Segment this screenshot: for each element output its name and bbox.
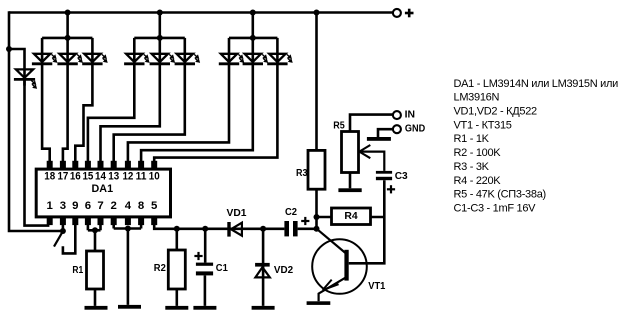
svg-text:R2 - 100K: R2 - 100K xyxy=(454,147,502,159)
node: collector junction xyxy=(314,226,320,232)
svg-text:GND: GND xyxy=(405,124,426,135)
wire: R5 bottom to ground xyxy=(349,173,352,189)
transistor VT1 collector lead xyxy=(317,229,347,254)
pin stub bottom 5 xyxy=(151,218,157,225)
LED HL7 anode wire xyxy=(184,38,187,64)
LED HL1 cathode bar xyxy=(14,78,35,81)
LED HL4 anode wire xyxy=(91,38,94,64)
wire: HL4 to pin 16 xyxy=(75,64,92,162)
wire: single LED cathode to pin 1 xyxy=(25,79,50,225)
svg-text:18: 18 xyxy=(44,171,55,183)
transistor VT1 emitter lead xyxy=(319,278,345,301)
pin stub top 17 xyxy=(60,161,66,168)
svg-text:C1-C3 - 1mF 16V: C1-C3 - 1mF 16V xyxy=(454,202,537,214)
LED HL5 emission arrows xyxy=(144,54,149,62)
LED HL7 cathode bar xyxy=(175,62,195,65)
diode VD1 xyxy=(227,222,230,237)
LED HL2 anode wire xyxy=(41,38,44,64)
svg-text:DA1 - LM3914N или LM3915N или: DA1 - LM3914N или LM3915N или xyxy=(454,78,619,90)
resistor R2 xyxy=(176,229,179,250)
svg-text:6: 6 xyxy=(85,200,91,212)
wire: pin 3 stub down xyxy=(62,225,65,231)
node: VD2 tap xyxy=(260,226,266,232)
svg-text:R5 - 47K (СП3-38а): R5 - 47K (СП3-38а) xyxy=(454,189,546,201)
LED HL9 cathode bar xyxy=(243,62,263,65)
svg-text:VD2: VD2 xyxy=(274,265,293,276)
node: group 3 rail junction xyxy=(250,35,256,41)
node: R4 left junction xyxy=(314,214,320,220)
label + (C3) xyxy=(387,185,395,193)
wire: R5 top to IN xyxy=(350,115,393,132)
potentiometer R5 xyxy=(342,132,359,173)
node: junction top rail / group3 xyxy=(250,10,256,16)
pin stub bottom 8 xyxy=(138,218,144,225)
node: pins 2-4-8 junction xyxy=(125,226,131,232)
svg-text:7: 7 xyxy=(97,200,103,212)
terminal GND xyxy=(393,125,401,133)
LED HL7 emission arrows xyxy=(194,54,199,62)
LED HL9 anode wire xyxy=(252,38,255,64)
svg-text:17: 17 xyxy=(57,171,68,183)
svg-text:10: 10 xyxy=(149,171,160,183)
capacitor C2 xyxy=(284,221,289,236)
svg-text:13: 13 xyxy=(108,171,119,183)
LED HL2 emission arrows xyxy=(52,54,57,62)
capacitor C3 xyxy=(376,171,392,174)
wire: R5 wiper to C3 xyxy=(360,152,385,171)
svg-text:4: 4 xyxy=(125,200,132,212)
wire: pins 2,4,8 to ground xyxy=(114,225,141,305)
svg-text:VD1: VD1 xyxy=(227,208,247,219)
LED HL7 triangle xyxy=(177,54,193,62)
ground (GND terminal) xyxy=(367,137,391,141)
LED HL6 anode wire xyxy=(159,38,162,64)
LED HL2 triangle xyxy=(34,54,50,62)
pin stub bottom 9 xyxy=(72,218,78,225)
svg-text:IN: IN xyxy=(405,109,415,120)
svg-text:R3 - 3K: R3 - 3K xyxy=(454,161,490,173)
label + (C2) xyxy=(301,217,309,225)
svg-text:VD1,VD2 - КД522: VD1,VD2 - КД522 xyxy=(454,106,538,118)
LED HL8 emission arrows xyxy=(238,54,243,62)
node: group 1 rail junction xyxy=(65,35,71,41)
capacitor C1 xyxy=(204,229,207,306)
svg-text:R2: R2 xyxy=(154,263,166,274)
svg-text:1: 1 xyxy=(47,200,54,212)
svg-text:11: 11 xyxy=(136,171,147,183)
pin stub bottom 6 xyxy=(85,218,91,225)
svg-text:VT1 - КТ315: VT1 - КТ315 xyxy=(454,119,512,131)
LED HL4 emission arrows xyxy=(102,54,107,62)
svg-text:16: 16 xyxy=(70,171,81,183)
LED HL5 triangle xyxy=(126,54,142,62)
diode VD2 xyxy=(262,229,265,306)
resistor R1 xyxy=(87,251,104,289)
transistor VT1 base bar xyxy=(344,250,348,281)
wire: group 2 anode rail xyxy=(134,13,185,38)
ground (pin 4) xyxy=(118,305,141,309)
LED HL8 triangle xyxy=(221,54,237,62)
wire: HL6 to pin 14 xyxy=(101,64,160,162)
ground (C1) xyxy=(193,306,216,310)
wiper arrowhead xyxy=(359,145,370,158)
pin stub top 18 xyxy=(47,161,53,168)
pin stub bottom 7 xyxy=(98,218,104,225)
wire: HL8 to pin 12 xyxy=(128,64,229,162)
terminal IN xyxy=(393,111,401,119)
LED HL10 cathode bar xyxy=(267,62,287,65)
wire: group 3 anode rail xyxy=(229,13,277,38)
LED HL10 anode wire xyxy=(276,38,279,64)
node: C1 tap xyxy=(202,226,208,232)
svg-text:9: 9 xyxy=(72,200,78,212)
LED HL10 triangle xyxy=(269,54,285,62)
transistor VT1 emitter arrow xyxy=(323,280,339,290)
LED HL5 cathode bar xyxy=(124,62,144,65)
wire: HL2 to pin 18 xyxy=(42,64,50,162)
wire: +V to R3 xyxy=(315,13,318,151)
LED HL3 anode wire xyxy=(66,38,69,64)
pin stub bottom 2 xyxy=(111,218,117,225)
svg-text:LM3916N: LM3916N xyxy=(454,92,500,104)
wire: single LED anode from left rail xyxy=(9,49,25,86)
LED HL6 emission arrows xyxy=(169,54,174,62)
svg-text:12: 12 xyxy=(122,171,133,183)
pin stub bottom 3 xyxy=(60,218,66,225)
wire: R1 to ground xyxy=(94,289,97,306)
LED HL9 triangle xyxy=(245,54,261,62)
LED HL3 cathode bar xyxy=(57,62,77,65)
node: pin 3 / +V junction xyxy=(60,228,66,234)
svg-text:3: 3 xyxy=(60,200,66,212)
pin stub top 14 xyxy=(98,161,104,168)
pin stub top 10 xyxy=(151,161,157,168)
wire: pin 5 signal line xyxy=(154,225,316,229)
svg-text:2: 2 xyxy=(111,200,117,212)
node: junction top rail / group1 xyxy=(65,10,71,16)
svg-text:R4: R4 xyxy=(344,211,358,222)
wire: left +V rail down to pin 3 xyxy=(9,11,62,231)
label + (C1) xyxy=(194,252,202,260)
svg-text:C2: C2 xyxy=(285,207,297,218)
wire: HL10 to pin 10 xyxy=(154,64,277,162)
LED HL5 anode wire xyxy=(133,38,136,64)
svg-text:C1: C1 xyxy=(216,263,228,274)
svg-text:C3: C3 xyxy=(395,171,408,182)
wire: pins 6,7 tied to R1 xyxy=(88,225,101,251)
wire: HL3 to pin 17 xyxy=(63,64,68,162)
wire: HL5 to pin 15 xyxy=(88,64,134,162)
LED HL1 triangle xyxy=(16,69,33,77)
svg-text:R5: R5 xyxy=(333,121,345,132)
wire: HL7 to pin 13 xyxy=(114,64,185,162)
wire: R2 to ground xyxy=(176,289,179,306)
pin stub top 15 xyxy=(85,161,91,168)
svg-text:R3: R3 xyxy=(296,168,308,179)
pin stub bottom 1 xyxy=(47,218,53,225)
wire: pin 9 to switch contact xyxy=(63,225,75,253)
svg-text:R4 - 220K: R4 - 220K xyxy=(454,175,502,187)
wire: HL9 to pin 11 xyxy=(141,64,253,162)
wire: group 1 anode rail xyxy=(42,13,92,38)
LED HL6 triangle xyxy=(152,54,168,62)
terminal + (power) xyxy=(393,9,401,17)
wire: C3 bottom to R4/base node xyxy=(349,180,385,263)
ground (R5) xyxy=(338,188,361,192)
LED HL4 triangle xyxy=(84,54,100,62)
LED HL2 cathode bar xyxy=(32,62,52,65)
op-amp/IC DA1 body xyxy=(36,169,170,217)
node: group 2 rail junction xyxy=(157,35,163,41)
transistor VT1 circle xyxy=(312,239,367,294)
svg-text:VT1: VT1 xyxy=(368,281,385,292)
LED HL1 emission arrows xyxy=(31,80,36,88)
label + xyxy=(405,9,414,18)
node: junction top rail / group2 xyxy=(157,10,163,16)
resistor R3 xyxy=(308,150,325,189)
LED HL8 anode wire xyxy=(228,38,231,64)
LED HL9 emission arrows xyxy=(262,54,267,62)
pin stub top 11 xyxy=(138,161,144,168)
node: pins 6-7 junction xyxy=(92,227,98,233)
wire: R3 to collector node xyxy=(315,189,318,229)
svg-text:8: 8 xyxy=(138,200,144,212)
ground (VD2) xyxy=(252,306,275,310)
node: R2 tap xyxy=(174,226,180,232)
svg-text:15: 15 xyxy=(82,171,93,183)
wire: GND terminal to ground bar xyxy=(378,129,393,137)
ground (VT1 emitter) xyxy=(307,301,331,305)
LED HL6 cathode bar xyxy=(150,62,170,65)
svg-text:14: 14 xyxy=(95,171,106,183)
svg-text:R1 - 1K: R1 - 1K xyxy=(454,133,490,145)
LED HL3 triangle xyxy=(59,54,75,62)
LED HL3 emission arrows xyxy=(77,54,82,62)
svg-text:5: 5 xyxy=(151,200,158,212)
LED HL4 cathode bar xyxy=(82,62,102,65)
pin stub top 12 xyxy=(125,161,131,168)
ground (R1) xyxy=(85,306,108,310)
LED HL8 cathode bar xyxy=(219,62,239,65)
pin stub top 16 xyxy=(72,161,78,168)
pin stub top 13 xyxy=(111,161,117,168)
svg-text:R1: R1 xyxy=(72,265,83,276)
switch SA1 lever (mode select) xyxy=(54,231,63,246)
ground (R2) xyxy=(165,306,188,310)
node: junction top rail / R3 branch xyxy=(314,10,320,16)
node: junction left rail / single LED xyxy=(6,46,12,52)
wire: top +V rail xyxy=(9,11,393,14)
svg-text:DA1: DA1 xyxy=(92,183,114,195)
LED HL10 emission arrows xyxy=(287,54,292,62)
pin stub bottom 4 xyxy=(125,218,131,225)
resistor R4 xyxy=(317,216,385,219)
